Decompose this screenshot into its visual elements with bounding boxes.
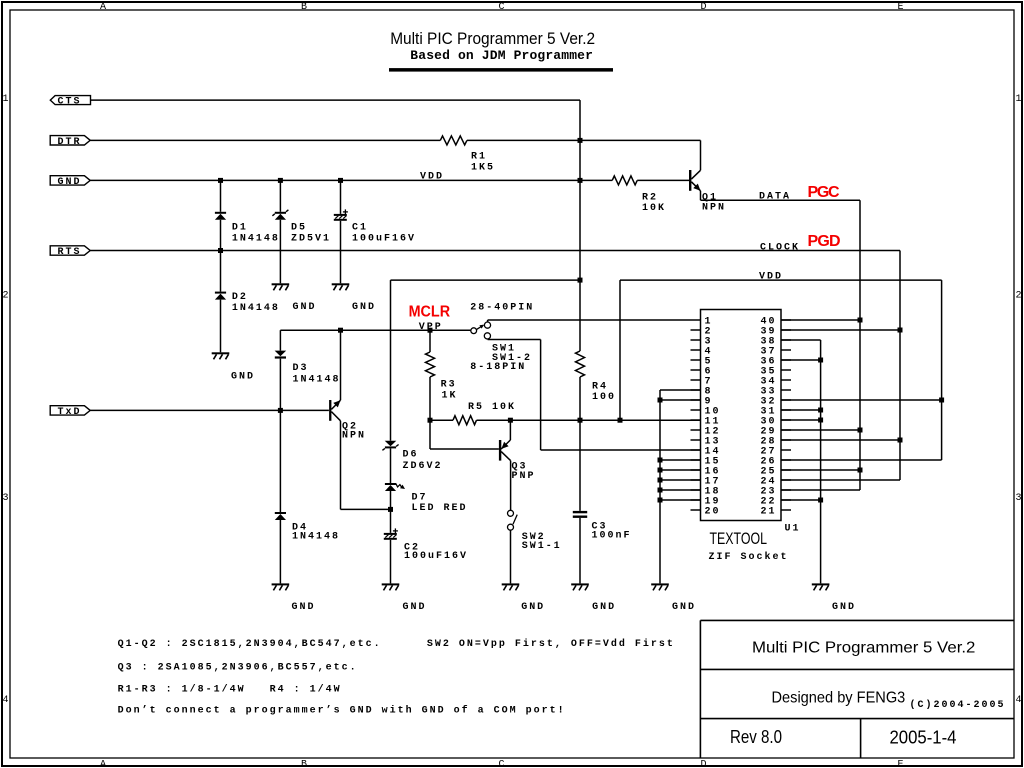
svg-text:D3: D3 xyxy=(293,363,307,374)
svg-text:GND: GND xyxy=(832,602,854,613)
svg-text:CTS: CTS xyxy=(58,97,80,108)
svg-text:4: 4 xyxy=(1015,695,1021,706)
svg-text:Multi PIC Programmer 5 Ver.2: Multi PIC Programmer 5 Ver.2 xyxy=(390,29,595,48)
svg-text:GND: GND xyxy=(293,302,315,313)
svg-text:100nF: 100nF xyxy=(592,531,630,542)
svg-text:21: 21 xyxy=(761,507,775,518)
svg-text:D5: D5 xyxy=(291,222,305,233)
svg-text:CLOCK: CLOCK xyxy=(760,242,798,253)
svg-text:SW1-1: SW1-1 xyxy=(522,541,560,552)
svg-text:GND: GND xyxy=(292,602,314,613)
svg-text:SW2 ON=Vpp First, OFF=Vdd Firs: SW2 ON=Vpp First, OFF=Vdd First xyxy=(427,638,673,650)
svg-text:TEXTOOL: TEXTOOL xyxy=(710,529,768,548)
svg-text:GND: GND xyxy=(592,602,614,613)
svg-text:DATA: DATA xyxy=(759,191,789,202)
svg-text:Q3 : 2SA1085,2N3906,BC557,etc.: Q3 : 2SA1085,2N3906,BC557,etc. xyxy=(118,663,356,674)
svg-text:1: 1 xyxy=(1015,94,1021,105)
svg-text:A: A xyxy=(100,2,106,13)
svg-text:ZD5V1: ZD5V1 xyxy=(291,233,329,244)
svg-text:8-18PIN: 8-18PIN xyxy=(470,362,524,373)
svg-text:1K: 1K xyxy=(442,390,456,401)
svg-text:GND: GND xyxy=(403,602,425,613)
svg-text:Rev 8.0: Rev 8.0 xyxy=(730,726,782,747)
svg-text:TxD: TxD xyxy=(58,407,80,418)
svg-text:D6: D6 xyxy=(403,450,417,461)
svg-text:2: 2 xyxy=(1015,291,1021,302)
svg-text:Designed by FENG3: Designed by FENG3 xyxy=(772,690,906,707)
svg-text:GND: GND xyxy=(231,371,253,382)
svg-text:NPN: NPN xyxy=(702,202,724,213)
svg-text:A: A xyxy=(100,760,106,768)
svg-text:Don’t connect a programmer’s G: Don’t connect a programmer’s GND with GN… xyxy=(118,704,564,716)
svg-text:R1: R1 xyxy=(471,151,485,162)
svg-text:RTS: RTS xyxy=(58,247,80,258)
svg-text:LED RED: LED RED xyxy=(412,503,466,514)
svg-text:GND: GND xyxy=(352,302,374,313)
svg-text:D2: D2 xyxy=(232,292,246,303)
svg-text:ZIF Socket: ZIF Socket xyxy=(709,551,787,563)
svg-text:B: B xyxy=(301,2,307,13)
svg-text:D: D xyxy=(700,2,706,13)
svg-text:4: 4 xyxy=(2,695,8,706)
svg-text:2005-1-4: 2005-1-4 xyxy=(890,726,957,747)
svg-text:E: E xyxy=(897,2,903,13)
svg-text:VPP: VPP xyxy=(419,322,441,333)
svg-text:3: 3 xyxy=(2,493,8,504)
svg-text:GND: GND xyxy=(672,602,694,613)
svg-text:D7: D7 xyxy=(412,492,426,503)
svg-text:C: C xyxy=(498,2,504,13)
svg-text:R1-R3 : 1/8-1/4W R4 : 1/4W: R1-R3 : 1/8-1/4W R4 : 1/4W xyxy=(118,683,340,695)
svg-text:1: 1 xyxy=(2,94,8,105)
svg-text:2: 2 xyxy=(2,291,8,302)
svg-text:NPN: NPN xyxy=(342,431,364,442)
svg-text:PGD: PGD xyxy=(808,233,841,250)
svg-text:28-40PIN: 28-40PIN xyxy=(470,303,532,314)
svg-text:Based on JDM Programmer: Based on JDM Programmer xyxy=(410,48,593,63)
svg-text:E: E xyxy=(897,760,903,768)
svg-text:D1: D1 xyxy=(232,222,246,233)
svg-text:B: B xyxy=(301,760,307,768)
svg-text:R3: R3 xyxy=(441,380,455,391)
svg-text:MCLR: MCLR xyxy=(409,304,451,321)
svg-text:10K: 10K xyxy=(642,203,664,214)
svg-text:GND: GND xyxy=(58,177,80,188)
svg-text:ZD6V2: ZD6V2 xyxy=(403,461,441,472)
svg-text:R4: R4 xyxy=(592,381,606,392)
svg-text:D: D xyxy=(700,760,706,768)
svg-text:R2: R2 xyxy=(642,192,656,203)
svg-text:PNP: PNP xyxy=(512,471,534,482)
svg-text:C1: C1 xyxy=(352,222,366,233)
svg-text:3: 3 xyxy=(1015,493,1021,504)
svg-text:DTR: DTR xyxy=(58,137,80,148)
svg-text:VDD: VDD xyxy=(759,271,781,282)
svg-text:U1: U1 xyxy=(785,524,799,535)
svg-text:Multi PIC Programmer 5 Ver.2: Multi PIC Programmer 5 Ver.2 xyxy=(752,639,976,656)
svg-text:C: C xyxy=(498,760,504,768)
svg-text:PGC: PGC xyxy=(808,184,840,201)
svg-text:1K5: 1K5 xyxy=(471,162,493,173)
svg-text:VDD: VDD xyxy=(420,171,442,182)
svg-text:100: 100 xyxy=(592,392,614,403)
svg-text:GND: GND xyxy=(521,602,543,613)
svg-text:100uF16V: 100uF16V xyxy=(352,233,414,244)
svg-text:100uF16V: 100uF16V xyxy=(404,551,466,562)
svg-text:20: 20 xyxy=(705,507,719,518)
